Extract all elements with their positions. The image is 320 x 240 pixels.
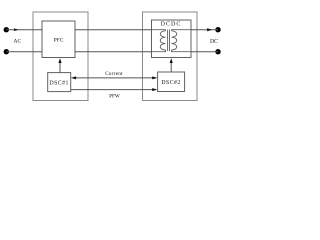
wire: DC bottom output: [191, 51, 218, 53]
terminal: AC neutral (bottom left): [4, 49, 9, 54]
svg-text:DC: DC: [210, 39, 218, 45]
arrow: Current into DSC#2: [152, 76, 157, 79]
wire: AC top input to PFC: [6, 29, 42, 31]
wire: primary top lead: [152, 30, 166, 31]
wire: PFC to DCDC bus top: [75, 29, 152, 31]
svg-text:Current: Current: [105, 71, 123, 77]
terminal: DC minus (bottom right): [215, 49, 220, 54]
arrow: PFW into DSC#2: [152, 88, 157, 91]
transformer T1 core: [168, 30, 170, 52]
block DCDC: [152, 20, 192, 58]
svg-text:PFC: PFC: [54, 38, 64, 44]
terminal: AC line (top left): [4, 27, 9, 32]
wire: secondary top lead: [172, 30, 192, 31]
transformer T1 primary winding: [160, 31, 165, 50]
enclosure box: PFC stage (left outer box): [33, 12, 88, 101]
wire: secondary bottom lead: [172, 50, 192, 52]
arrow: AC input flow: [14, 28, 19, 31]
svg-text:AC: AC: [13, 39, 21, 45]
arrow: Current into DSC#1: [71, 76, 76, 79]
arrow: gate drive into DCDC: [170, 58, 173, 63]
wire: DSC#2 gate drive to DCDC: [170, 61, 172, 73]
block DSC#1: [48, 73, 71, 92]
svg-text:DSC#1: DSC#1: [50, 80, 69, 86]
wire: PFC to DCDC bus bottom: [75, 51, 152, 53]
arrow: DC output flow: [207, 28, 212, 31]
svg-text:DCDC: DCDC: [161, 22, 182, 28]
terminal: DC plus (top right): [215, 27, 220, 32]
arrow: gate drive into PFC: [58, 58, 61, 63]
wire: DSC#1 gate drive to PFC: [59, 61, 61, 73]
wire: DC top output: [191, 29, 218, 31]
svg-text:DSC#2: DSC#2: [161, 80, 180, 86]
wire: primary bottom lead: [152, 50, 166, 52]
enclosure box: DCDC stage (right outer box): [143, 12, 198, 101]
wire: Current signal between DSC#1 and DSC#2: [73, 77, 155, 79]
transformer T1 secondary winding: [172, 31, 177, 50]
svg-text:PFW: PFW: [109, 94, 120, 100]
wire: AC bottom input to PFC: [6, 51, 42, 53]
block DSC#2: [158, 72, 185, 92]
wire: PFW signal from DSC#1 to DSC#2: [71, 89, 155, 91]
block PFC: [42, 21, 75, 58]
